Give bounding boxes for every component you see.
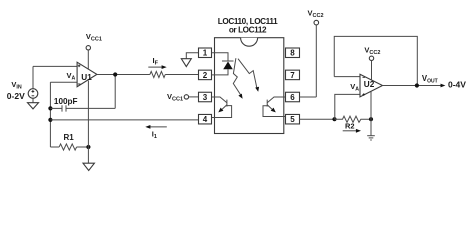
ground (R1) (83, 147, 94, 171)
pin 2 (199, 70, 212, 80)
svg-text:3: 3 (203, 93, 208, 102)
light arrow 1 (233, 58, 242, 98)
supply VCC2 (pin 6) (300, 8, 324, 97)
wire VIN stem (32, 66, 34, 88)
wire VIN to U1 noninverting input (33, 65, 77, 67)
wire to pin 2 (165, 74, 198, 76)
current arrow (R2) (343, 129, 361, 133)
wire bottom row to pin 4 (50, 119, 198, 121)
current arrow IF (148, 56, 166, 69)
light arrow 2 (238, 59, 259, 92)
svg-text:0-2V: 0-2V (7, 91, 25, 101)
resistor R1 (50, 144, 88, 150)
output arrow (441, 84, 446, 88)
wire U1 V- down (87, 81, 89, 147)
pin 3 (199, 92, 212, 102)
svg-text:100pF: 100pF (54, 97, 78, 106)
pin 1 (199, 48, 212, 58)
resistor R2 (335, 116, 372, 122)
IC LOC110 body (215, 38, 284, 134)
svg-text:4: 4 (203, 115, 208, 124)
svg-text:or LOC112: or LOC112 (229, 26, 267, 35)
pin 4 (199, 114, 212, 124)
svg-text:8: 8 (290, 49, 295, 58)
wire pin 5 row (300, 118, 335, 120)
node pin5 junction (332, 117, 336, 121)
svg-text:R1: R1 (64, 133, 75, 142)
pin 7 (286, 70, 300, 80)
ground (earth, U2) (367, 119, 375, 140)
svg-text:2: 2 (203, 71, 208, 80)
supply VCC1 (pin 3) (167, 92, 199, 103)
IC notch (241, 38, 258, 47)
supply VCC1 (U1) (86, 32, 102, 69)
node R1 junction (86, 145, 90, 149)
wire U2 V- down (370, 91, 372, 119)
wire U2 inverting input (334, 76, 360, 78)
wire U1 inverting input (50, 81, 77, 83)
op-amp U2 (360, 74, 382, 97)
feedback loop U2 (334, 36, 417, 85)
node output junction (415, 83, 419, 87)
op-amp U1 (77, 62, 97, 86)
wire U1 output row (97, 74, 150, 76)
svg-text:6: 6 (290, 93, 295, 102)
node output junction (113, 72, 117, 76)
supply VCC2 (U2) (364, 46, 380, 81)
node R2/ground junction (369, 117, 373, 121)
svg-text:5: 5 (290, 115, 295, 124)
phototransistor (left, pins 3-4) (212, 97, 232, 118)
source VIN (28, 89, 38, 99)
svg-text:0-4V: 0-4V (448, 80, 466, 90)
pin 5 (286, 114, 300, 124)
svg-text:R2: R2 (345, 121, 355, 130)
LED (optocoupler internal, pins 1-2) (212, 53, 234, 75)
svg-text:U1: U1 (81, 73, 92, 82)
node bottom junction (48, 118, 52, 122)
wire cap feedback vertical (114, 75, 116, 109)
phototransistor (right, pins 6-5) (263, 97, 286, 117)
resistor (series, unlabeled) (150, 71, 165, 77)
svg-text:7: 7 (290, 71, 295, 80)
capacitor 100pF (50, 105, 115, 111)
svg-text:U2: U2 (364, 80, 375, 89)
ground (pin 1) (181, 53, 198, 67)
svg-text:1: 1 (203, 49, 208, 58)
pin 6 (286, 92, 300, 102)
wire U2 output (382, 85, 441, 87)
pin 8 (286, 48, 300, 58)
node cap junction (48, 106, 52, 110)
wire to U2 + input (335, 94, 360, 119)
current arrow I1 (145, 125, 167, 140)
wire left vertical bus (49, 82, 51, 147)
ground (VIN) (28, 98, 39, 109)
